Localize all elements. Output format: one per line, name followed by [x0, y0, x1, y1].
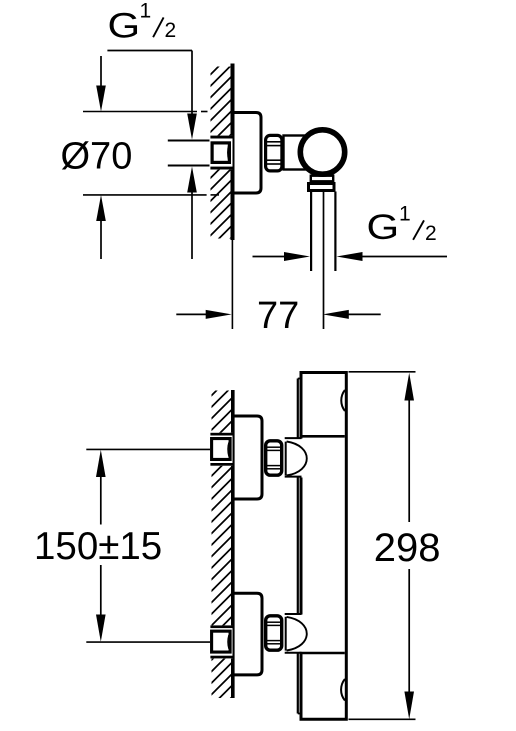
svg-text:298: 298 [374, 526, 441, 570]
svg-text:Ø70: Ø70 [61, 135, 133, 177]
hose thread arrow left [253, 256, 288, 258]
upper escutcheon (front view) [233, 416, 262, 499]
wall hatching (top view) [211, 67, 231, 239]
elbow inner curve (top view) [228, 145, 229, 161]
screw cover bump lower [341, 679, 345, 701]
wall hatching (bottom view) [212, 391, 232, 699]
extension line bottom of escutcheon [83, 194, 207, 196]
valve body left rim strip [297, 379, 299, 440]
svg-text:2: 2 [165, 19, 177, 42]
upper union square [212, 439, 231, 460]
lower union square [212, 631, 231, 652]
valve body circle (side view of body) [300, 130, 344, 174]
lower union nut (front) [266, 616, 282, 650]
dimension line Ø70 upper arrow [100, 56, 102, 88]
hose thread arrow right [337, 252, 363, 261]
outlet collar (top view) [311, 176, 333, 182]
valve body connector (top view) [284, 136, 312, 170]
extension line body bottom [349, 718, 416, 720]
valve body outline (front view) [300, 373, 347, 720]
dimension 150±15 [96, 450, 106, 477]
socket white backing (top view) [210, 136, 233, 170]
hose outlet pipe left wall [310, 192, 312, 272]
hose outlet pipe center line [323, 192, 325, 330]
escutcheon side view [233, 113, 261, 194]
screw cover bump upper [341, 390, 345, 411]
union nut side view [266, 135, 282, 171]
union elbow square (top view) [212, 143, 229, 163]
wall socket upper bar (top view) [210, 136, 232, 139]
upper wall socket bars [210, 433, 232, 436]
upper socket white backing [210, 433, 233, 466]
G 1/2 leader bracket [107, 50, 192, 52]
wall surface line (bottom view) [231, 390, 235, 698]
lower square inner curve [228, 635, 229, 649]
extension line top of escutcheon [83, 111, 197, 113]
arrow down to socket (G 1/2) [187, 114, 197, 140]
svg-text:1: 1 [399, 202, 411, 225]
svg-text:2: 2 [425, 222, 437, 245]
body section line lower [300, 652, 345, 655]
valve body left edge segments [300, 373, 303, 439]
extension line lower pipe center [86, 641, 210, 643]
wall socket lower bar (top view) [210, 167, 232, 170]
body section line upper [303, 435, 345, 438]
lower S-union dome [285, 617, 287, 651]
dimension line Ø70 lower arrow [96, 195, 106, 221]
lower wall socket bars [210, 625, 232, 628]
svg-text:1: 1 [140, 0, 152, 22]
upper S-union dome [285, 442, 287, 476]
dimension 298 [404, 373, 414, 401]
extension line body top [349, 371, 416, 373]
supply pipe in wall (top view) [168, 140, 212, 142]
dimension 77 left arrow [176, 313, 208, 315]
lower escutcheon (front view) [233, 593, 262, 675]
upper union nut (front) [266, 441, 282, 475]
arrow up to socket (G 1/2) [187, 167, 197, 193]
hose outlet pipe right wall [334, 192, 336, 272]
lower socket white backing [210, 625, 233, 658]
wall surface line (top view) [231, 64, 235, 241]
nut facet lines (top view) [267, 141, 282, 143]
svg-text:150±15: 150±15 [34, 525, 162, 568]
svg-text:77: 77 [257, 295, 299, 337]
wall surface extension line (below top view wall) [231, 240, 233, 329]
extension line upper pipe center [86, 448, 210, 450]
svg-text:G: G [367, 208, 400, 247]
outlet nut flange (top view) [309, 184, 335, 191]
svg-text:G: G [108, 7, 141, 46]
dimension 77 right arrow [323, 310, 349, 319]
upper square inner curve [228, 443, 229, 457]
